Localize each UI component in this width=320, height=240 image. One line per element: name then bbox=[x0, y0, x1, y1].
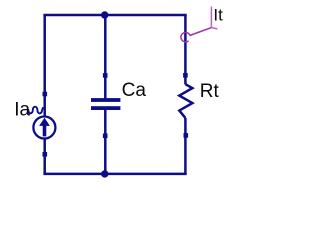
junction dot top bbox=[101, 11, 108, 18]
terminal square Ca bottom bbox=[103, 134, 108, 139]
current probe It diagonal lead bbox=[190, 28, 212, 36]
terminal square Rt top bbox=[183, 73, 188, 78]
wire left branch lower bbox=[43, 138, 46, 174]
terminal square Rt bottom bbox=[184, 133, 189, 138]
junction dot bottom bbox=[101, 170, 108, 177]
current probe It flag pole bbox=[210, 7, 212, 28]
capacitor Ca top plate bbox=[91, 98, 120, 102]
terminal square Ca top bbox=[103, 73, 108, 78]
wire middle branch upper bbox=[104, 15, 107, 100]
svg-text:Rt: Rt bbox=[200, 81, 220, 102]
terminal square Ia bottom bbox=[43, 152, 48, 157]
wire left branch upper bbox=[43, 15, 46, 117]
terminal square Ia top bbox=[43, 92, 48, 97]
svg-text:Ia: Ia bbox=[14, 99, 30, 120]
current source Ia arrow bbox=[39, 118, 50, 126]
wire middle branch lower bbox=[104, 109, 107, 174]
current source Ia circle bbox=[33, 117, 55, 139]
resistor Rt zigzag bbox=[179, 84, 192, 118]
wire right branch upper bbox=[184, 15, 187, 84]
capacitor Ca bottom plate bbox=[91, 106, 120, 110]
current probe It flag foot bbox=[211, 28, 217, 29]
svg-text:Ca: Ca bbox=[122, 80, 147, 101]
wire right branch lower bbox=[184, 118, 187, 174]
squiggle by Ia label bbox=[28, 107, 43, 114]
current probe It curl bbox=[181, 33, 190, 42]
svg-text:It: It bbox=[213, 5, 223, 24]
wire top rail bbox=[43, 14, 186, 17]
wire bottom rail bbox=[43, 173, 186, 176]
